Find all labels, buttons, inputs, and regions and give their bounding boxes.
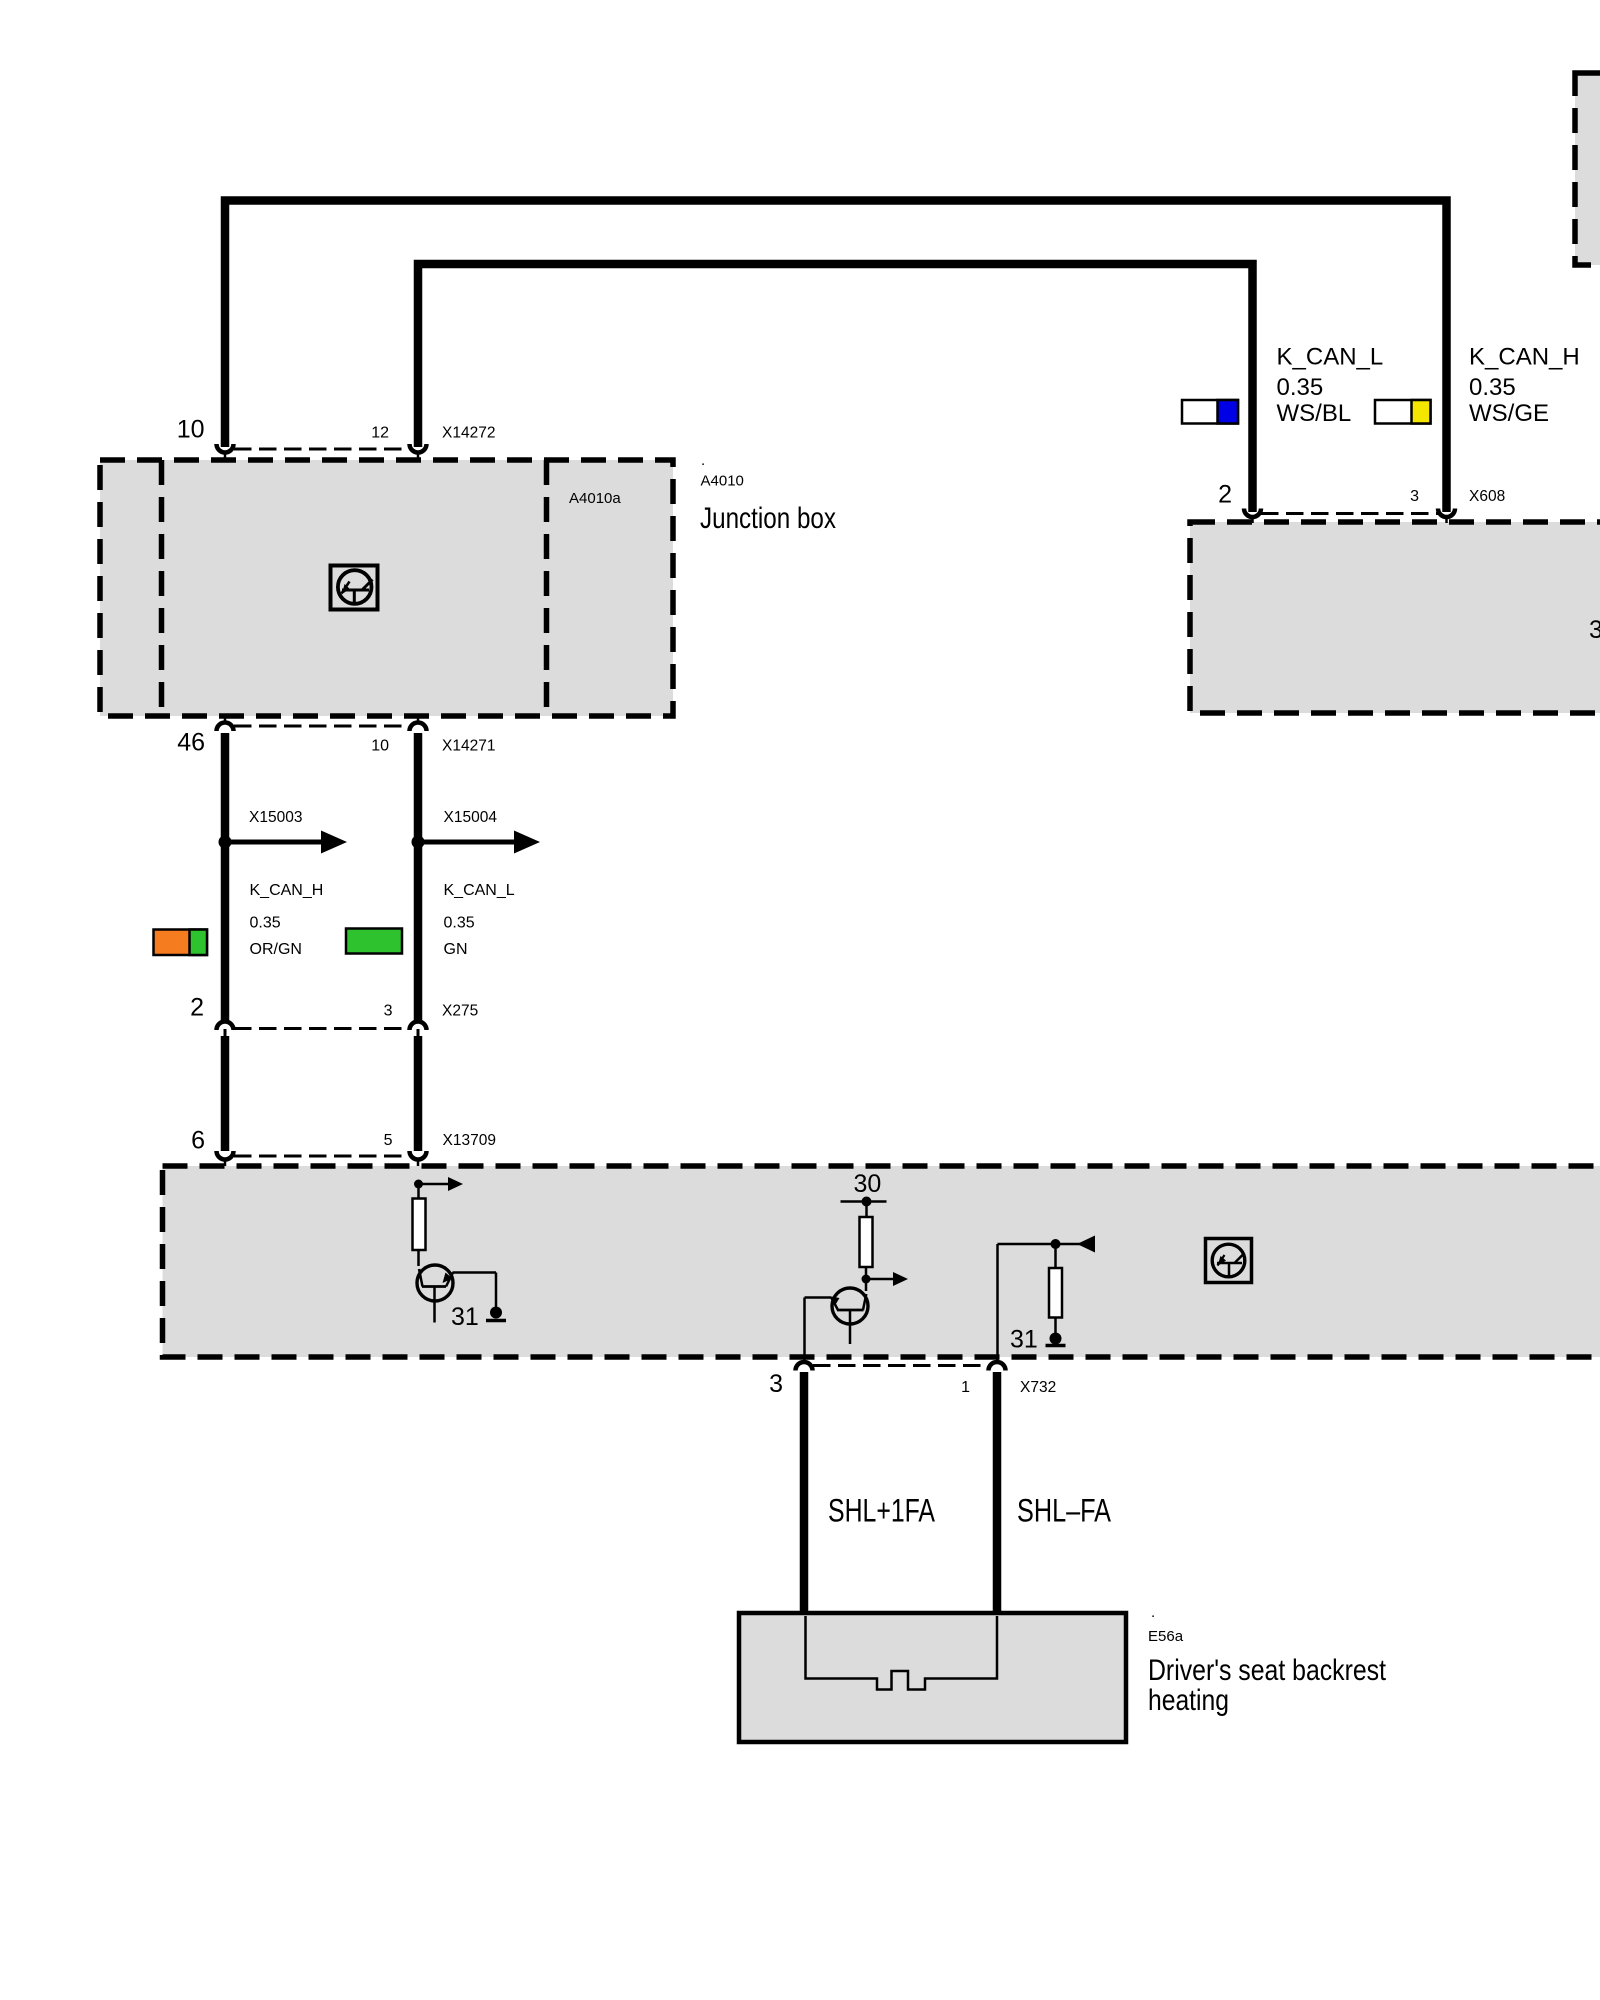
svg-text:10: 10: [177, 416, 205, 444]
E56a heater box: [739, 1613, 1126, 1742]
wire K_CAN_H middle (X14271 pin46 to X275 pin2): [221, 733, 230, 1022]
svg-text:K_CAN_L: K_CAN_L: [1277, 344, 1384, 371]
ground terminal 31 (left): [451, 1303, 506, 1331]
svg-text:3: 3: [769, 1370, 783, 1398]
transistor Q1 (left stage): [417, 1265, 496, 1323]
svg-text:0.35: 0.35: [1277, 374, 1324, 401]
svg-text:3: 3: [1589, 616, 1600, 644]
node with arrow on K_CAN_L inside lower box: [414, 1177, 463, 1191]
svg-text:SHL+1FA: SHL+1FA: [828, 1493, 936, 1529]
svg-text:46: 46: [177, 729, 205, 757]
wire K_CAN_H top run (pin10 X14272 up, right, down to X608 pin3): [225, 201, 1447, 513]
lower box logic icon (transistor in circle in square): [1206, 1239, 1252, 1283]
connector X13709 (top of lower box): [191, 1127, 496, 1185]
svg-text:heating: heating: [1148, 1684, 1229, 1717]
svg-text:Driver's seat backrest: Driver's seat backrest: [1148, 1654, 1387, 1687]
svg-text:31: 31: [1010, 1326, 1038, 1354]
junction box A4010 (dashed gray box): [100, 460, 673, 716]
connector X275 (inline connector): [190, 994, 478, 1039]
svg-text:WS/BL: WS/BL: [1277, 400, 1352, 427]
svg-text:SHL–FA: SHL–FA: [1017, 1493, 1112, 1529]
svg-text:30: 30: [854, 1170, 882, 1198]
transistor Q2 (right stage): [805, 1288, 869, 1364]
svg-text:K_CAN_L: K_CAN_L: [444, 882, 515, 899]
wire SHL-FA internal pull (vertical to pin 1): [996, 1244, 999, 1364]
net label K_CAN_H 0.35 WS/GE with color swatch: [1375, 344, 1580, 428]
resistor R3: [1049, 1268, 1062, 1334]
svg-text:3: 3: [1410, 488, 1419, 505]
connector X608 (top of right box): [1218, 481, 1505, 524]
svg-text:X15004: X15004: [444, 809, 498, 826]
svg-text:X608: X608: [1469, 488, 1505, 505]
svg-text:WS/GE: WS/GE: [1469, 400, 1549, 427]
wire K_CAN_L top run (pin12 X14272 up, right, down to X608 pin2): [418, 264, 1253, 512]
svg-text:X14272: X14272: [442, 425, 495, 442]
svg-text:.: .: [701, 452, 705, 469]
lower control box (seat module, dashed gray, clipped right): [163, 1166, 1600, 1357]
svg-text:OR/GN: OR/GN: [250, 941, 302, 958]
svg-text:5: 5: [384, 1132, 393, 1149]
svg-text:X15003: X15003: [249, 809, 302, 826]
connector X732 (bottom of lower box): [769, 1362, 1056, 1398]
resistor R2 (right stage top): [860, 1217, 873, 1291]
net label K_CAN_L 0.35 GN with swatch: [346, 882, 515, 958]
svg-text:X275: X275: [442, 1003, 478, 1020]
node X15003 (junction dot with arrow): [219, 809, 348, 854]
svg-text:1: 1: [961, 1379, 970, 1396]
svg-text:12: 12: [371, 425, 389, 442]
wire K_CAN_H lower (X275 pin2 to X13709 pin6): [221, 1036, 230, 1151]
net label K_CAN_H 0.35 OR/GN with swatch: [154, 882, 324, 958]
svg-text:31: 31: [451, 1303, 479, 1331]
connector X14271 (bottom of junction box): [177, 716, 495, 757]
node with left arrow and resistor R3 (right side): [998, 1236, 1096, 1269]
svg-text:3: 3: [384, 1003, 393, 1020]
svg-text:0.35: 0.35: [444, 915, 475, 932]
connector X14272 (top of junction box): [177, 416, 496, 461]
svg-text:E56a: E56a: [1148, 1628, 1184, 1645]
svg-text:2: 2: [1218, 481, 1232, 509]
svg-text:GN: GN: [444, 941, 468, 958]
svg-text:X14271: X14271: [442, 738, 495, 755]
node with arrow (right stage): [862, 1272, 909, 1286]
wire K_CAN_L middle (X14271 pin10 to X275 pin3): [414, 733, 423, 1022]
svg-text:.: .: [1151, 1604, 1155, 1621]
svg-text:10: 10: [371, 738, 389, 755]
svg-text:K_CAN_H: K_CAN_H: [1469, 344, 1580, 371]
svg-text:X732: X732: [1020, 1379, 1056, 1396]
svg-text:A4010: A4010: [701, 473, 744, 490]
svg-text:Junction box: Junction box: [700, 502, 836, 535]
svg-text:6: 6: [191, 1127, 205, 1155]
wire K_CAN_L lower (X275 pin3 to X13709 pin5): [414, 1036, 423, 1151]
net label K_CAN_L 0.35 WS/BL with color swatch: [1182, 344, 1383, 428]
node X15004 (junction dot with arrow): [412, 809, 541, 854]
ground terminal 31 (right): [1010, 1326, 1066, 1354]
label E56a / Driver's seat backrest heating: [1148, 1604, 1387, 1717]
wire SHL-FA (X732 pin1 to E56a): [993, 1372, 1002, 1616]
right control module box (dashed gray, clipped at right edge): [1190, 522, 1600, 713]
label A4010 / Junction box: [569, 452, 836, 535]
svg-text:0.35: 0.35: [250, 915, 281, 932]
top right dashed box fragment: [1575, 73, 1600, 265]
resistor R1 (left stage): [413, 1184, 426, 1266]
svg-text:2: 2: [190, 994, 204, 1022]
svg-text:0.35: 0.35: [1469, 374, 1516, 401]
wire SHL+1FA (X732 pin3 to E56a): [800, 1372, 809, 1616]
terminal 30 (right stage): [841, 1170, 887, 1217]
svg-text:K_CAN_H: K_CAN_H: [250, 882, 324, 899]
svg-text:X13709: X13709: [443, 1132, 496, 1149]
svg-text:A4010a: A4010a: [569, 490, 621, 507]
junction box logic icon (transistor in circle in square): [331, 566, 378, 610]
